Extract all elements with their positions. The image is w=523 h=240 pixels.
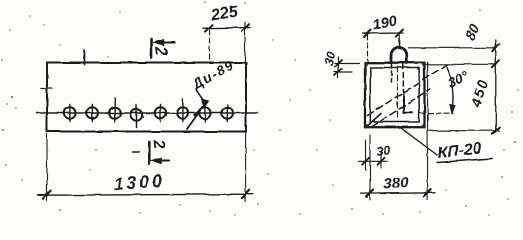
hole H5	[155, 105, 166, 122]
dimension 80 (right, hook height)	[409, 22, 500, 132]
vertical centerline of section	[398, 39, 400, 46]
leader label Ди-89 with zigzag to hole H7	[187, 57, 237, 129]
tick on left edge	[41, 88, 52, 90]
hole H4	[131, 105, 142, 128]
label KP-20	[437, 140, 492, 162]
dimension 30 (top-left wall of section)	[321, 50, 359, 78]
plate outline (plan view of lintel)	[47, 63, 246, 132]
diagonal rebar (dashed) lower	[372, 89, 431, 127]
hole H1	[64, 105, 75, 122]
30 degree angle: horizontal reference (dashed)	[420, 112, 453, 114]
short corner diagonal	[366, 114, 382, 128]
dimension 1300 (bottom of plan)	[38, 133, 253, 202]
centerline of plan view	[37, 112, 258, 114]
svg-text:190: 190	[372, 13, 399, 34]
svg-text:2: 2	[149, 138, 167, 150]
hole H2	[87, 105, 98, 122]
svg-text:30°: 30°	[445, 68, 471, 91]
svg-text:2: 2	[151, 45, 169, 57]
svg-text:30: 30	[375, 143, 391, 159]
hook legs hidden (dashed)	[391, 64, 393, 84]
section marker 2 (top)	[151, 39, 175, 58]
hole H3	[109, 98, 120, 123]
svg-text:КП-20: КП-20	[437, 140, 483, 162]
svg-text:1300: 1300	[113, 170, 166, 194]
lifting hook	[391, 47, 407, 63]
section marker 2 (bottom)	[132, 138, 169, 164]
svg-text:225: 225	[209, 3, 240, 24]
dimension 190 (top of section)	[363, 13, 403, 62]
dimension 225 (top of plan)	[203, 3, 250, 62]
hole H7	[199, 105, 210, 122]
section inner outline	[370, 68, 419, 123]
svg-text:450: 450	[468, 77, 492, 110]
hole H8	[222, 105, 233, 122]
dimension 450 (right, section height)	[428, 77, 499, 134]
dimension 30 (bottom-left wall)	[359, 140, 392, 170]
tick on top edge	[84, 51, 86, 65]
section outer outline	[365, 63, 425, 128]
30 degree angle: arc with arrowhead	[447, 67, 453, 108]
hole H6	[177, 100, 188, 122]
svg-text:380: 380	[383, 174, 410, 193]
bent rebar foot (L mark)	[404, 96, 413, 113]
svg-text:80: 80	[462, 22, 482, 43]
diagonal rebar (dashed) upper	[368, 65, 448, 116]
leader line to label	[399, 127, 437, 156]
scan blobs near linework	[46, 62, 425, 133]
dimension 380 (bottom of section)	[361, 62, 435, 200]
